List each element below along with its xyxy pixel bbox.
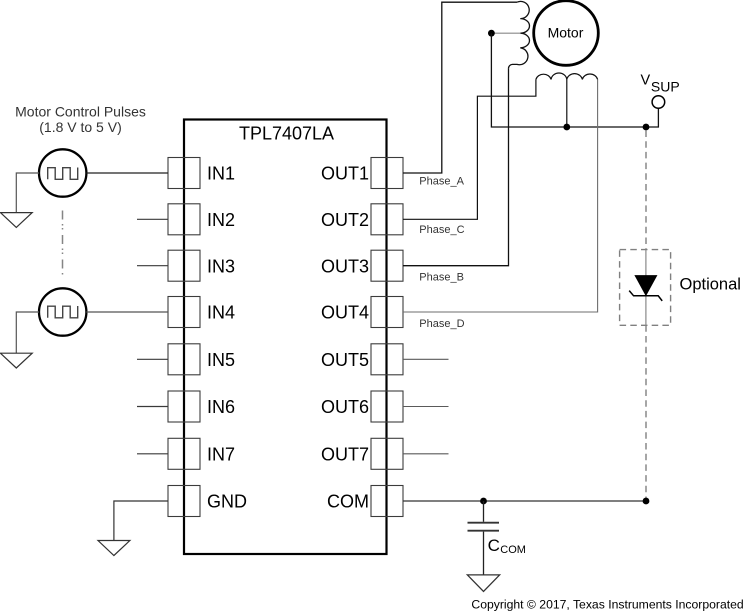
junction dot winding 1 center tap <box>488 30 495 37</box>
pin box IN6 <box>168 391 200 422</box>
ground symbol at CCOM <box>467 575 499 592</box>
svg-text:Phase_B: Phase_B <box>419 271 464 283</box>
wire stub IN2 <box>137 218 168 220</box>
svg-text:OUT5: OUT5 <box>321 350 369 370</box>
svg-text:V: V <box>641 72 651 88</box>
pulse source V2 circle <box>39 288 86 335</box>
pulse source V1 circle <box>39 149 86 196</box>
svg-text:COM: COM <box>327 492 369 512</box>
wire winding 1 center tap stub <box>491 32 520 34</box>
pin box IN4 <box>168 297 200 328</box>
wire through TVS D1 <box>645 250 647 326</box>
wire stub IN3 <box>137 265 168 267</box>
svg-text:C: C <box>488 536 500 555</box>
pin box IN5 <box>168 344 200 375</box>
TVS diode D1 cathode bar with zener flags <box>629 291 662 301</box>
svg-text:Phase_D: Phase_D <box>419 318 464 330</box>
svg-text:Phase_A: Phase_A <box>419 176 464 188</box>
svg-text:TPL7407LA: TPL7407LA <box>239 124 334 144</box>
junction dot COM at optional branch <box>643 498 650 505</box>
wire stub OUT5 <box>403 358 449 360</box>
svg-text:IN1: IN1 <box>207 164 235 184</box>
ground symbol at GND pin <box>98 541 130 556</box>
pin box OUT6 <box>371 391 403 422</box>
svg-text:IN7: IN7 <box>207 444 235 464</box>
wire V1 output to IN1 <box>86 172 168 174</box>
wire GND pin to ground <box>114 501 168 541</box>
pin box OUT2 <box>371 204 403 235</box>
wire stub IN5 <box>137 358 168 360</box>
svg-text:Motor: Motor <box>548 25 584 41</box>
wire OUT1 Phase_A up and over to motor winding 1 top <box>403 2 517 173</box>
svg-text:OUT6: OUT6 <box>321 397 369 417</box>
capacitor CCOM top lead <box>483 501 485 522</box>
ground symbol at V2 <box>0 353 32 368</box>
capacitor CCOM plates <box>468 522 500 524</box>
motor M1 circle <box>534 1 599 66</box>
motor winding L2 (horizontal coil) <box>536 73 598 79</box>
wire Phase_B winding 1 bottom to OUT3 <box>403 68 509 265</box>
wire V2 to ground <box>16 312 39 353</box>
pin box IN3 <box>168 250 200 281</box>
svg-text:IN3: IN3 <box>207 256 235 276</box>
svg-text:(1.8 V to 5 V): (1.8 V to 5 V) <box>39 119 121 135</box>
wire stub IN6 <box>137 406 168 408</box>
pulse source V2 square-wave symbol <box>48 306 78 318</box>
wire V1 to ground <box>16 173 39 213</box>
ellipsis dash-dot between sources <box>62 211 64 277</box>
wire OUT2 Phase_C up to winding 2 left <box>403 79 536 219</box>
dashed wire optional branch upper <box>645 131 647 250</box>
junction dot winding 2 center tap on rail <box>563 124 570 131</box>
ground symbol at V1 <box>0 213 32 228</box>
pin box OUT4 <box>371 297 403 328</box>
svg-text:IN5: IN5 <box>207 350 235 370</box>
dashed wire optional branch lower <box>645 325 647 498</box>
svg-text:OUT7: OUT7 <box>321 444 369 464</box>
junction dot COM at capacitor <box>480 498 487 505</box>
TVS diode D1 triangle <box>635 276 656 296</box>
pin box OUT1 <box>371 158 403 189</box>
svg-text:IN4: IN4 <box>207 303 235 323</box>
svg-text:Motor Control Pulses: Motor Control Pulses <box>15 104 146 120</box>
svg-text:IN2: IN2 <box>207 210 235 230</box>
svg-text:Optional: Optional <box>680 276 741 294</box>
svg-text:IN6: IN6 <box>207 397 235 417</box>
optional TVS D1 dashed box <box>620 250 671 326</box>
svg-text:Phase_C: Phase_C <box>419 224 464 236</box>
svg-text:OUT3: OUT3 <box>321 256 369 276</box>
pin box OUT7 <box>371 438 403 469</box>
svg-text:COM: COM <box>500 544 526 556</box>
wire stub IN7 <box>137 453 168 455</box>
svg-text:GND: GND <box>207 492 247 512</box>
svg-text:Copyright © 2017, Texas Instru: Copyright © 2017, Texas Instruments Inco… <box>471 597 743 611</box>
wire Phase_D winding 2 right down to OUT4 <box>403 79 598 312</box>
svg-text:SUP: SUP <box>651 79 680 95</box>
svg-text:OUT1: OUT1 <box>321 164 369 184</box>
pin box OUT3 <box>371 250 403 281</box>
wire center tap down to VSUP rail <box>491 33 658 127</box>
VSUP terminal circle <box>652 96 665 109</box>
pulse source V1 square-wave symbol <box>48 168 78 180</box>
pin box GND <box>168 486 200 517</box>
wire COM rail <box>403 500 646 502</box>
pin box IN7 <box>168 438 200 469</box>
junction dot VSUP rail to optional branch <box>643 124 650 131</box>
wire stub OUT7 <box>403 453 449 455</box>
wire V2 output to IN4 <box>86 311 168 313</box>
pin box IN1 <box>168 158 200 189</box>
svg-text:OUT2: OUT2 <box>321 210 369 230</box>
pin box OUT5 <box>371 344 403 375</box>
wire winding 2 center tap to VSUP rail <box>566 79 568 127</box>
pin box COM <box>371 486 403 517</box>
capacitor CCOM bottom lead <box>483 532 485 575</box>
svg-text:OUT4: OUT4 <box>321 303 369 323</box>
wire stub OUT6 <box>403 406 449 408</box>
IC U1 TPL7407LA body <box>184 120 387 555</box>
pin box IN2 <box>168 204 200 235</box>
motor winding L1 (vertical coil) <box>509 1 530 68</box>
